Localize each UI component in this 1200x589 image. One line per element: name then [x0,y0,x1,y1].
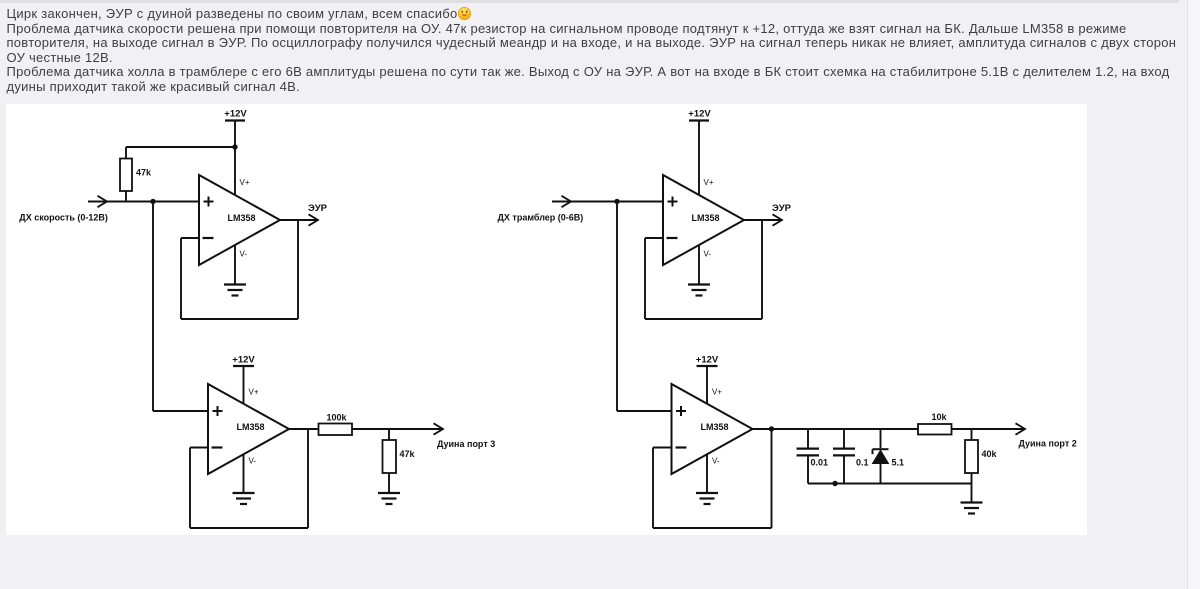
svg-text:V-: V- [704,250,712,259]
svg-text:0.1: 0.1 [856,457,869,467]
svg-text:47k: 47k [136,168,152,178]
svg-text:LM358: LM358 [227,213,255,223]
svg-text:+12V: +12V [688,109,711,120]
svg-text:V+: V+ [249,388,259,397]
svg-text:47k: 47k [400,449,416,459]
svg-text:+12V: +12V [224,109,247,120]
svg-text:0.01: 0.01 [811,457,829,467]
svg-text:ДХ трамблер (0-6В): ДХ трамблер (0-6В) [498,213,584,223]
svg-text:V-: V- [240,250,248,259]
svg-text:V-: V- [249,457,257,466]
svg-text:LM358: LM358 [700,422,728,432]
svg-text:40k: 40k [982,449,998,459]
svg-text:5.1: 5.1 [892,457,905,467]
svg-text:100k: 100k [326,413,347,423]
svg-text:Дуина порт 2: Дуина порт 2 [1019,439,1077,449]
svg-text:V+: V+ [704,178,714,187]
svg-text:LM358: LM358 [691,213,719,223]
svg-text:+12V: +12V [232,355,255,366]
svg-text:V+: V+ [712,388,722,397]
svg-text:ДХ скорость (0-12В): ДХ скорость (0-12В) [19,213,108,223]
svg-text:LM358: LM358 [236,422,264,432]
svg-text:Дуина порт 3: Дуина порт 3 [437,439,495,449]
svg-text:V+: V+ [240,178,250,187]
svg-text:+12V: +12V [696,355,719,366]
svg-text:10k: 10k [931,412,947,422]
svg-text:V-: V- [712,457,720,466]
svg-text:ЭУР: ЭУР [772,203,792,214]
svg-text:ЭУР: ЭУР [308,203,328,214]
